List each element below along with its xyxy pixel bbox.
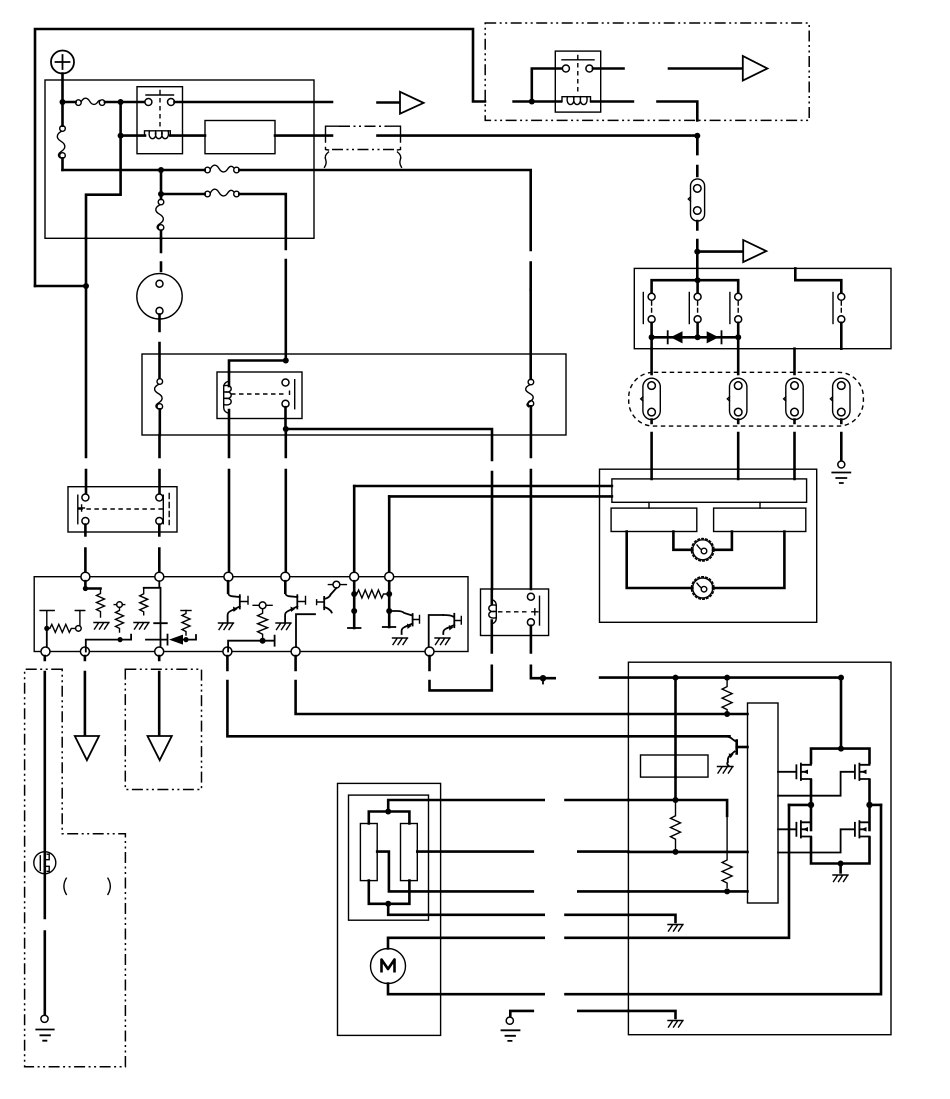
transistor Q3 <box>285 581 305 622</box>
wire internal bus 2 <box>228 636 275 652</box>
wire sensor right tap <box>417 850 628 853</box>
ground g3 <box>219 623 234 630</box>
wire pin10 down to row <box>227 656 628 736</box>
connector C102 (inline 2-pin) <box>688 179 704 221</box>
node W6 <box>673 849 679 855</box>
switch SW1 <box>643 293 655 324</box>
node N2 <box>695 334 701 340</box>
wire row3 to ignition column <box>239 170 530 290</box>
ground g4 <box>276 623 291 630</box>
node W7 <box>724 888 730 894</box>
wire node E to node F <box>160 170 163 194</box>
terminal E3 <box>253 602 272 609</box>
MOSFET QH3 <box>778 821 811 837</box>
dash-dot box (optional unit, top right) <box>485 23 809 120</box>
wire row to unit upper <box>354 485 612 488</box>
terminal E4 <box>328 581 346 594</box>
hidden label parentheses <box>64 878 66 894</box>
transistor Q7 <box>389 611 419 634</box>
wire row 800 inside <box>628 800 727 816</box>
ground g9 <box>668 1021 683 1028</box>
node W5 <box>673 797 679 803</box>
node Q5b <box>351 608 357 614</box>
wire RY4 contact down to terminal <box>531 626 555 678</box>
wire row4 to column G <box>239 194 285 238</box>
wire bulb L1 right <box>713 532 732 550</box>
wire bottom rail ground drop <box>839 864 842 873</box>
ignition switch box <box>142 354 566 435</box>
node P <box>283 358 289 364</box>
node F <box>158 191 164 197</box>
transistor Q1 collector wire <box>85 581 100 588</box>
node W2 <box>724 675 730 681</box>
connector block C103 (dashed rounded) <box>629 372 864 426</box>
wire column D lower <box>696 221 699 280</box>
ground g7 <box>718 767 734 774</box>
node N3 <box>735 334 741 340</box>
arrow to harness (top middle) <box>378 92 424 114</box>
node W9 <box>808 802 814 808</box>
wire sub-module down <box>674 777 677 800</box>
wire column H down-left jog <box>86 136 121 239</box>
wire segment to node D <box>378 136 698 154</box>
wire pin7 stub <box>46 628 48 647</box>
wire row 1011 inside + ground drop <box>628 1011 675 1018</box>
wire C104 down to ignition box <box>158 314 161 378</box>
fuse F2 (vertical, battery line) <box>57 102 65 170</box>
wire RY3 coil down <box>228 410 231 572</box>
wire row 915 inside + ground drop <box>628 915 675 922</box>
relay RY3 coil <box>228 372 231 386</box>
fuse F7 (vertical, in ignition box) <box>526 290 534 589</box>
sub-module rect <box>641 755 709 777</box>
motor MT1 <box>371 949 406 984</box>
wire sensor bottom out <box>388 904 628 915</box>
ground g5 <box>393 638 408 645</box>
capacitor C1 plates <box>40 611 85 632</box>
wire node Q right to column R <box>286 429 492 589</box>
unit bottom pin 11 <box>291 647 300 656</box>
node Q6b <box>386 608 392 614</box>
unit top pin 1 <box>81 572 90 581</box>
wire node L to arrow <box>697 250 742 253</box>
wire pin9 down to arrow <box>158 656 161 735</box>
wire ground row to box <box>578 1010 628 1013</box>
transistor Q8 <box>443 614 461 634</box>
switch SW2 <box>689 280 701 323</box>
ground g2 <box>134 623 149 630</box>
relay RY4 box <box>481 589 549 636</box>
node L <box>694 249 700 255</box>
wire relay RY3 coil feed <box>229 361 286 373</box>
hazard switch pins <box>82 494 163 525</box>
wire node B down to coil row <box>119 102 122 136</box>
wire row 852 inside <box>628 851 747 854</box>
stub top rect to right rect <box>759 502 761 508</box>
transistor Q2 <box>228 581 248 622</box>
diode bus wire <box>652 323 739 338</box>
resistor R10 (vertical) <box>722 816 732 888</box>
wire column H to node J <box>85 238 88 493</box>
node W11 <box>838 861 844 867</box>
wire supply loop top-left <box>35 29 485 286</box>
battery B1 <box>51 51 74 74</box>
dash-dot box (horn circuit, bottom left) <box>25 669 126 1066</box>
connector terminal T3 <box>784 378 804 419</box>
relay RY4 contacts <box>527 593 539 626</box>
fuse box (under-hood fuse/relay box) <box>45 80 314 238</box>
ground g8 <box>668 925 683 932</box>
resistor R4 (vertical) <box>140 588 148 615</box>
node J <box>83 283 89 289</box>
relay RY1 armature dashed <box>159 98 161 128</box>
MOSFET QH1 <box>778 764 811 780</box>
wire Q2 link <box>144 581 160 588</box>
terminal E2 <box>114 602 125 608</box>
unit top pin 2 <box>155 572 164 581</box>
fuse F4 <box>205 189 240 197</box>
emitter bar Q5 <box>348 627 361 629</box>
wire row 891 inside <box>628 890 747 893</box>
wire column D segments <box>696 136 699 176</box>
switch feed bar <box>652 280 739 293</box>
stub top rect to left rect <box>648 502 650 508</box>
wire pin7 down <box>43 656 46 1015</box>
wire node Q down to unit pin <box>284 429 287 572</box>
ground G2 (terminal, bottom left) <box>36 1015 53 1040</box>
switch SW3 <box>730 293 742 324</box>
fuse F3 <box>205 165 240 173</box>
node R7a <box>351 591 357 597</box>
wire left output link <box>789 804 811 807</box>
wiper control module box <box>628 662 891 1034</box>
fuse F5 (vertical) <box>156 194 164 238</box>
sensor resistor RA <box>360 824 377 881</box>
wire bulb L2 left <box>627 532 693 589</box>
wire row 736 inside <box>628 735 729 738</box>
relay RY3 contacts <box>282 379 295 409</box>
diode D1 <box>668 331 683 343</box>
wire supply loop segment to relay RY2 <box>514 100 561 103</box>
arrow to harness (down 2) <box>148 736 172 760</box>
resistor R8 (vertical) <box>722 678 732 715</box>
relay RY3 armature dashed <box>231 391 290 398</box>
resistor R2 (vertical) <box>97 589 105 618</box>
wire pin8 down to arrow <box>84 656 87 735</box>
capacitor C2 <box>154 588 167 647</box>
ground g6 <box>435 638 450 645</box>
module M1 (control box) <box>205 121 275 154</box>
wire node K up to RY2 contact <box>532 69 563 102</box>
resistor R3 (vertical) <box>116 607 124 632</box>
relay RY1 coil <box>145 131 171 139</box>
node W8 <box>838 746 844 752</box>
emitter bar Q6 <box>383 626 396 628</box>
transistor Q9 <box>726 736 748 766</box>
wire W1 column <box>674 678 677 777</box>
relay RY2 box <box>555 51 600 112</box>
relay RY3 box <box>217 372 302 419</box>
arrow to harness (middle right) <box>743 240 766 262</box>
wire sensor mid tap <box>377 852 628 892</box>
switch SW4 <box>833 293 845 324</box>
unit left rect <box>611 508 697 531</box>
node B <box>118 99 124 105</box>
wire thick column pin5 <box>353 581 356 628</box>
diode D2 <box>707 331 722 343</box>
wire motor output right <box>628 805 881 994</box>
wire switch outputs down <box>652 323 842 374</box>
unit bottom pin 10 <box>223 647 232 656</box>
wire supply loop bottom <box>35 285 86 288</box>
wire motor bottom <box>388 984 628 995</box>
wire bulb L2 right <box>713 532 784 589</box>
wiper motor assembly box <box>338 783 441 1035</box>
unit bottom pin 9 <box>155 647 164 656</box>
resistor R5 (vertical) <box>181 611 191 636</box>
wire sensor top out <box>388 800 628 812</box>
MOSFET QH2 <box>778 764 870 796</box>
resistor R7 (horizontal) <box>357 590 386 598</box>
turn signal / wiper switch box <box>634 268 891 348</box>
position sensor inner box <box>349 795 429 920</box>
transistor Q4 <box>317 595 332 613</box>
node R3b <box>118 637 123 642</box>
node S2 <box>385 901 391 907</box>
arrow to harness (top right) <box>743 56 768 81</box>
wire H-bridge left rail <box>810 780 813 830</box>
wire right output link <box>870 804 882 807</box>
resistor R6 (vertical) <box>258 609 268 639</box>
node R7b <box>386 591 392 597</box>
wire column G lower <box>284 238 287 360</box>
wire module M1 out right <box>275 134 332 137</box>
node R6b <box>260 638 266 644</box>
diode D3 <box>146 635 196 645</box>
fuse F1 <box>63 98 119 105</box>
unit input rect <box>612 479 807 502</box>
node Q1c <box>83 586 88 591</box>
wire node B to relay RY1 contact <box>121 101 145 104</box>
sensor resistor RB <box>401 824 418 881</box>
relay RY1 contacts <box>145 91 175 106</box>
wire pin11 riser <box>296 614 315 647</box>
wire row4 <box>161 193 205 196</box>
node M <box>695 277 701 283</box>
connector C104 (round 2-pin) <box>137 274 182 319</box>
wire row 714 inside <box>628 713 747 716</box>
unit right rect <box>714 508 806 531</box>
relay RY4 plus mark <box>532 609 538 615</box>
unit bottom pin 8 <box>80 647 89 656</box>
unit top pin 4 <box>281 572 290 581</box>
ground g10 <box>833 875 848 882</box>
arrow to harness (down 1) <box>75 736 99 760</box>
wire motor output left <box>628 805 789 938</box>
terminal E1 <box>76 626 82 632</box>
wire pin12 to relay RY4 coil <box>430 636 492 691</box>
node A <box>60 99 66 105</box>
wire RY1 coil to module M1 <box>170 134 205 137</box>
sensor top bar <box>369 812 410 824</box>
hazard switch dashed link <box>78 508 165 510</box>
node D <box>694 133 700 139</box>
unit top pin 6 <box>385 572 394 581</box>
unit top pin 5 <box>350 572 359 581</box>
wire battery to node A <box>61 74 64 100</box>
wire hazard outputs down <box>85 525 159 573</box>
wire internal bus 1 <box>86 635 131 652</box>
unit bottom pin 12 <box>425 647 434 656</box>
relay RY2 armature dashed <box>577 63 579 94</box>
wire RY2 contact to arrow <box>593 67 742 70</box>
node W10 <box>866 802 872 808</box>
node K <box>529 99 535 105</box>
node E <box>158 167 164 173</box>
relay RY2 coil <box>562 97 591 105</box>
wire column up from pin 5 <box>353 486 356 572</box>
ground G1 (body ground right) <box>832 420 850 484</box>
wire pin11 down to row <box>296 656 629 714</box>
H-bridge top rail <box>811 749 870 763</box>
wire pin12 riser <box>429 615 443 647</box>
wire column up from pin 6 <box>388 496 391 572</box>
wire thick column pin6 <box>388 581 391 627</box>
bulb L2 <box>691 577 714 600</box>
relay RY4 armature dashed <box>498 611 528 613</box>
hazard switch box <box>68 487 177 532</box>
wire row B+ into box <box>600 678 841 749</box>
MOSFET QH4 <box>778 821 870 852</box>
node W1 <box>673 675 679 681</box>
wires connectors down to combination unit <box>652 420 795 479</box>
sensor bottom bar <box>369 881 410 904</box>
node S1 <box>385 809 391 815</box>
wire RY2 coil out to column D <box>591 102 697 121</box>
connector C101 (dash-dot housing) <box>325 126 402 167</box>
wire bulb L1 left <box>673 532 692 550</box>
relay RY4 coil <box>490 589 493 636</box>
dash-dot box (second option box) <box>125 669 201 789</box>
hazard switch bars <box>78 495 164 524</box>
wire motor top <box>388 938 628 949</box>
wire column E lower <box>160 238 163 271</box>
connector terminal T2 <box>727 349 747 420</box>
connector terminal T1 <box>641 349 661 420</box>
node W3 <box>838 675 844 681</box>
hazard switch plus mark <box>78 505 84 511</box>
connector terminal T5 <box>540 675 546 684</box>
wire row to unit lower <box>389 495 612 498</box>
fuse F6 (vertical, in ignition box) <box>155 379 163 435</box>
wire RY1 contact out to arrow <box>175 101 333 104</box>
unit bottom pin 7 <box>41 647 50 656</box>
node Q <box>283 426 289 432</box>
wire row3 left <box>63 169 205 172</box>
flasher control unit box <box>34 577 468 652</box>
relay RY2 contacts <box>562 56 594 73</box>
resistor R1 (horizontal) <box>47 624 75 632</box>
wire RY3 contact down to node Q <box>284 407 287 429</box>
switch SW4 feed from box edge <box>795 268 841 293</box>
relay RY1 box <box>137 87 183 154</box>
combination light unit box <box>600 469 817 622</box>
node C <box>118 133 124 139</box>
resistor R9 (vertical) <box>671 800 681 850</box>
connector terminal T4 <box>830 378 850 419</box>
node N1 <box>649 334 655 340</box>
wire hazard feed right <box>158 435 161 494</box>
ground g1 <box>94 623 109 630</box>
bulb L1 <box>691 539 714 562</box>
H-bridge bottom rail <box>811 838 870 864</box>
unit top pin 3 <box>224 572 233 581</box>
driver IC rect <box>748 703 779 903</box>
ground G3 (terminal, middle bottom) <box>502 1011 533 1041</box>
wire node C to RY1 coil <box>121 134 145 137</box>
horn H1 <box>34 852 56 874</box>
wire H-bridge right rail <box>868 780 871 830</box>
node W4 <box>724 711 730 717</box>
